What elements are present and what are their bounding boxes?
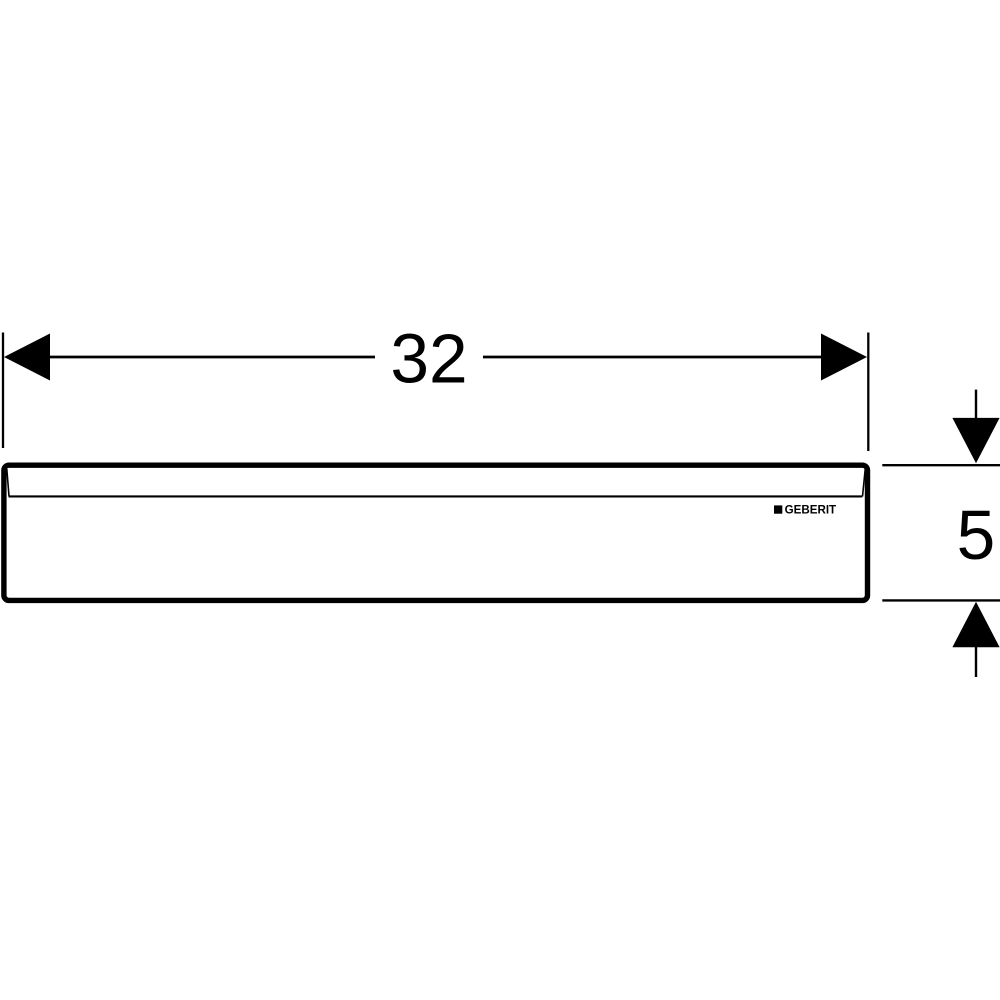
product: left chamfer slant	[7, 469, 9, 496]
product: shower channel cover profile outline	[4, 465, 868, 600]
svg-text:GEBERIT: GEBERIT	[785, 504, 837, 517]
dimension 32: left arrowhead	[4, 334, 50, 381]
dimension 5: top arrowhead (down)	[952, 418, 999, 463]
dimension 32: left extension line	[2, 333, 4, 449]
dimension 5: top arrow shaft	[975, 390, 977, 425]
product: right chamfer slant	[863, 469, 866, 496]
product: chamfer edge line	[9, 495, 863, 497]
dimension 32: dimension line left segment	[48, 356, 375, 359]
dimension 5: bottom arrowhead (up)	[952, 602, 999, 647]
svg-text:32: 32	[390, 320, 467, 398]
dimension 32: dimension line right segment	[483, 356, 821, 359]
product: Geberit logo square	[774, 505, 782, 513]
svg-text:5: 5	[957, 496, 996, 574]
dimension 5: top extension line	[882, 464, 1000, 466]
dimension 32: right arrowhead	[821, 334, 867, 381]
dimension 32: right extension line	[867, 333, 869, 452]
dimension 5: bottom extension line	[882, 599, 1000, 601]
dimension 5: bottom arrow shaft	[975, 643, 977, 677]
